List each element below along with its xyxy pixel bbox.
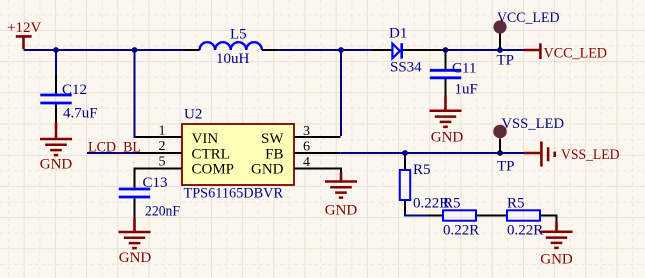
svg-text:4.7uF: 4.7uF bbox=[63, 106, 98, 122]
svg-text:R5: R5 bbox=[507, 196, 525, 212]
svg-text:220nF: 220nF bbox=[145, 204, 180, 220]
svg-text:VSS_LED: VSS_LED bbox=[561, 147, 620, 163]
svg-text:TP: TP bbox=[497, 159, 515, 175]
svg-text:VSS_LED: VSS_LED bbox=[502, 116, 565, 132]
svg-text:3: 3 bbox=[303, 124, 310, 139]
svg-text:COMP: COMP bbox=[192, 162, 235, 178]
svg-text:4: 4 bbox=[303, 155, 310, 170]
svg-text:GND: GND bbox=[325, 203, 358, 219]
svg-text:FB: FB bbox=[265, 146, 283, 162]
svg-text:0.22R: 0.22R bbox=[507, 223, 543, 239]
svg-text:1: 1 bbox=[159, 124, 166, 139]
svg-text:GND: GND bbox=[40, 157, 73, 173]
svg-text:10uH: 10uH bbox=[216, 51, 250, 67]
svg-text:2: 2 bbox=[159, 139, 166, 154]
svg-text:GND: GND bbox=[431, 130, 464, 146]
svg-text:VCC_LED: VCC_LED bbox=[544, 46, 608, 62]
svg-text:R5: R5 bbox=[443, 196, 461, 212]
svg-text:6: 6 bbox=[303, 140, 310, 155]
svg-text:L5: L5 bbox=[230, 27, 247, 43]
svg-text:GND: GND bbox=[540, 252, 573, 268]
svg-text:SS34: SS34 bbox=[390, 60, 422, 76]
svg-text:SW: SW bbox=[261, 131, 284, 147]
svg-text:C13: C13 bbox=[143, 175, 168, 191]
svg-text:GND: GND bbox=[119, 250, 152, 266]
svg-text:TPS61165DBVR: TPS61165DBVR bbox=[184, 186, 284, 202]
svg-text:VCC_LED: VCC_LED bbox=[497, 10, 560, 26]
svg-text:U2: U2 bbox=[184, 107, 202, 123]
svg-text:C11: C11 bbox=[452, 61, 476, 77]
svg-text:C12: C12 bbox=[62, 82, 87, 98]
svg-text:CTRL: CTRL bbox=[192, 146, 230, 162]
svg-text:+12V: +12V bbox=[7, 20, 41, 36]
svg-text:D1: D1 bbox=[389, 26, 407, 42]
svg-text:LCD_BL: LCD_BL bbox=[88, 140, 141, 156]
svg-text:5: 5 bbox=[159, 155, 166, 170]
svg-text:0.22R: 0.22R bbox=[443, 223, 479, 239]
svg-text:VIN: VIN bbox=[192, 131, 219, 147]
svg-text:1uF: 1uF bbox=[455, 82, 478, 98]
svg-text:R5: R5 bbox=[413, 162, 431, 178]
svg-text:TP: TP bbox=[497, 53, 515, 69]
svg-text:GND: GND bbox=[251, 162, 284, 178]
